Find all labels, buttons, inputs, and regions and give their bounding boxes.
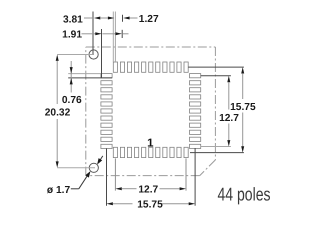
svg-text:ø 1.7: ø 1.7 (47, 185, 71, 196)
socket body outline (phantom) chamfer corner (200, 160, 216, 176)
extension gray: left pad1 top edge (68, 73, 101, 75)
svg-text:0.76: 0.76 (62, 95, 82, 106)
extension line from hole center up (3.81/1.91 datum) (92, 12, 94, 56)
mounting hole bottom-left (o 1.7) (89, 163, 98, 172)
dimension line 12.7 bottom (115, 187, 186, 190)
extension: right pad11 center (12.7) (201, 146, 231, 148)
extension: right pad1 center (12.7) (201, 75, 231, 77)
dimension line 15.75 right (241, 67, 244, 153)
svg-text:12.7: 12.7 (219, 113, 239, 124)
extension to top hole center (57, 54, 92, 56)
svg-text:1.91: 1.91 (62, 30, 82, 41)
socket body outline (phantom) right edge (214, 47, 216, 160)
extension line left pad outer edge up (1.91) (101, 29, 103, 78)
dimension 0.76 arrows (70, 61, 73, 93)
mounting hole top-left (89, 50, 98, 59)
dimension line 15.75 bottom (107, 202, 196, 205)
extension gray pad1 left edge (112, 12, 114, 62)
extension tick pad2 (1.27) (122, 15, 124, 22)
extension: left pad column center down (15.75) (106, 148, 108, 205)
dimension line 12.7 right (227, 76, 230, 147)
svg-text:44 poles: 44 poles (218, 183, 271, 204)
extension: right pad column center down (15.75) (194, 148, 196, 206)
dimension line 20.32 (56, 55, 59, 168)
svg-text:1.27: 1.27 (139, 14, 159, 25)
top pad row (pads 40-34 region) (113, 62, 188, 72)
leader o1.7 upper segment with arrow (97, 156, 103, 165)
extension: top pad center to right (15.75) (188, 66, 244, 68)
extension tick pad2 lower (1.91 row) (121, 30, 123, 38)
svg-text:1: 1 (147, 137, 154, 149)
svg-text:12.7: 12.7 (138, 184, 158, 195)
dimension line 1.91 (82, 32, 129, 35)
extension black: left pad1 bottom edge (68, 77, 112, 79)
bottom pad row (pin 1 row) (113, 147, 188, 157)
dimension line 3.81 / 1.27 (84, 17, 138, 20)
extension: bottom pad center to right (15.75) (190, 152, 244, 154)
svg-text:15.75: 15.75 (137, 200, 163, 211)
extension to bottom hole center (57, 167, 95, 169)
leader o1.7 lower segment with arrow (71, 171, 91, 189)
right pad column (190, 74, 201, 149)
extension: bottom pad1 center down (12.7) (114, 158, 116, 190)
svg-text:15.75: 15.75 (230, 102, 256, 113)
left pad column (101, 74, 112, 149)
extension: bottom pad11 center down (12.7) (185, 158, 187, 190)
socket body outline (phantom) left edge (85, 47, 87, 176)
svg-text:20.32: 20.32 (45, 108, 71, 119)
svg-text:3.81: 3.81 (63, 14, 83, 25)
extension gray pad1 center (114, 12, 116, 62)
socket body outline (phantom) bottom edge (86, 175, 200, 177)
socket body outline (phantom) top edge (86, 46, 216, 48)
